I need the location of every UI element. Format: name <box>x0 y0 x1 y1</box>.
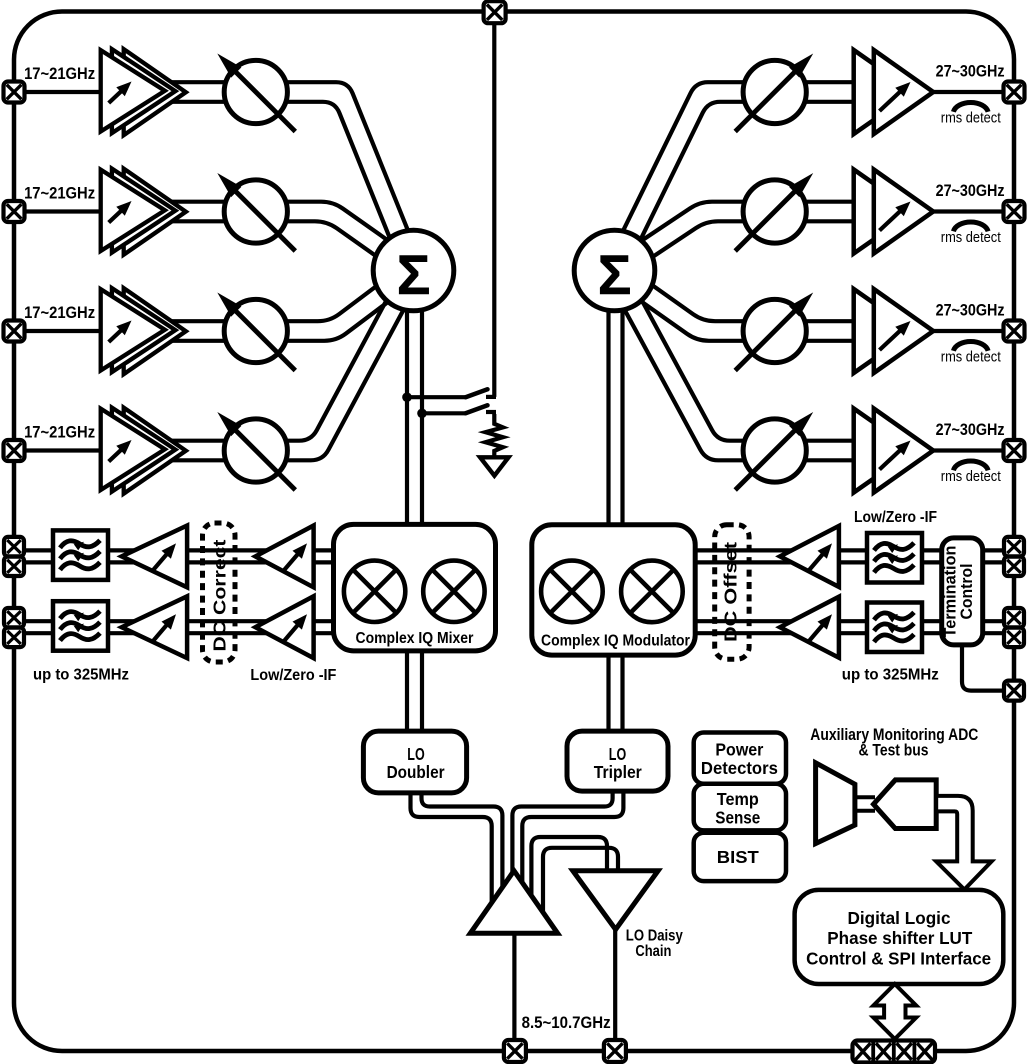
wire TX3 output <box>930 329 1004 333</box>
port LO in bottom <box>504 1040 526 1062</box>
svg-text:DC Correct: DC Correct <box>209 539 229 651</box>
amplifier VGA RX1 <box>124 49 186 135</box>
phase shifter RX3 <box>224 299 287 362</box>
switch S2 <box>422 411 466 415</box>
wire horn to ADC <box>855 795 875 799</box>
wire IF left pair <box>23 548 336 552</box>
wire IF right pair <box>693 619 1006 623</box>
svg-text:17~21GHz: 17~21GHz <box>24 64 95 83</box>
wire LO daisy to bottom port <box>613 926 617 1046</box>
wire modulator to LO tripler pair <box>606 650 610 736</box>
ADC symbol <box>874 780 937 829</box>
svg-text:BIST: BIST <box>717 847 759 867</box>
switch S1 <box>407 395 466 399</box>
port LO daisy bottom <box>604 1040 626 1062</box>
ground arrow <box>480 457 508 475</box>
amplifier PA TX3 <box>854 289 914 373</box>
BIST block <box>694 833 786 881</box>
port termination right <box>1004 681 1024 701</box>
node junction 1 <box>402 392 412 402</box>
port RX1 <box>4 82 25 103</box>
wire RX4 input <box>24 448 104 452</box>
rms detect arc TX1 <box>953 102 988 111</box>
port RX4 <box>4 440 25 461</box>
port IF left pair 1 <box>4 537 24 556</box>
svg-text:8.5~10.7GHz: 8.5~10.7GHz <box>522 1014 611 1032</box>
amplifier IF right <box>780 526 839 587</box>
amplifier VGA RX4 <box>124 408 186 494</box>
svg-text:Detectors: Detectors <box>701 758 778 778</box>
svg-text:Low/Zero -IF: Low/Zero -IF <box>250 667 336 684</box>
wire IF left pair <box>23 619 336 623</box>
amplifier PA TX1 <box>854 50 914 134</box>
svg-text:Complex IQ Mixer: Complex IQ Mixer <box>356 630 474 647</box>
amplifier IF left A <box>122 596 187 658</box>
port RX3 <box>4 321 25 342</box>
Digital Logic block <box>795 890 1004 984</box>
svg-text:Low/Zero -IF: Low/Zero -IF <box>854 509 937 526</box>
svg-text:Doubler: Doubler <box>387 762 445 782</box>
LO Tripler block <box>567 731 668 791</box>
bus arrow ADC to digital <box>936 796 991 890</box>
wire IF right pair <box>693 548 1006 552</box>
svg-text:Σ: Σ <box>598 243 632 306</box>
wire TX2 phase pair <box>620 221 862 278</box>
Power Detectors block <box>694 733 786 784</box>
filter IF right <box>867 603 922 653</box>
port TX1 <box>1004 82 1025 103</box>
svg-text:Temp: Temp <box>717 789 759 809</box>
port IF right pair 2 <box>1004 608 1024 627</box>
rms detect arc TX3 <box>953 341 988 350</box>
svg-text:Σ: Σ <box>397 243 431 306</box>
wire mixer to LO doubler pair <box>405 645 409 736</box>
ports SPI cluster <box>853 1041 936 1063</box>
amplifier PA TX4 <box>854 409 914 493</box>
svg-text:Phase shifter LUT: Phase shifter LUT <box>827 928 972 948</box>
filter IF right <box>867 533 922 583</box>
bidirectional SPI arrow <box>873 984 916 1039</box>
termination control block <box>942 538 983 645</box>
svg-text:rms detect: rms detect <box>941 469 1001 485</box>
svg-text:rms detect: rms detect <box>941 230 1001 246</box>
port TX4 <box>1004 440 1025 461</box>
wire RX3 input <box>24 329 104 333</box>
wire TX4 output <box>930 448 1004 452</box>
wire TX2 output <box>930 209 1004 213</box>
svg-text:17~21GHz: 17~21GHz <box>24 422 95 441</box>
rms detect arc TX2 <box>953 222 988 231</box>
wire top port down <box>492 20 496 397</box>
LO Doubler block <box>363 731 466 793</box>
amplifier IF right <box>780 597 839 658</box>
wire sigma-L to mixer pair <box>405 275 409 530</box>
DC Offset block <box>715 525 749 660</box>
amplifier VGA RX3 <box>124 288 186 374</box>
svg-text:Power: Power <box>715 739 763 759</box>
svg-text:Control: Control <box>957 563 976 619</box>
svg-text:rms detect: rms detect <box>941 350 1001 366</box>
phase shifter TX3 <box>743 299 806 362</box>
modulator cell Q <box>621 561 683 623</box>
svg-text:LO: LO <box>407 744 424 764</box>
svg-text:Complex IQ Modulator: Complex IQ Modulator <box>541 633 690 650</box>
svg-text:rms detect: rms detect <box>941 111 1001 127</box>
wire TX4 phase pair <box>606 275 862 460</box>
mixer cell Q <box>423 561 484 622</box>
svg-text:27~30GHz: 27~30GHz <box>936 62 1005 81</box>
port IF right pair 1 <box>1004 537 1024 556</box>
wire sigma-R to modulator pair <box>606 275 610 530</box>
node junction 2 <box>417 409 427 419</box>
LO amplifier <box>470 871 557 934</box>
svg-text:17~21GHz: 17~21GHz <box>24 183 95 202</box>
svg-text:LO Daisy: LO Daisy <box>626 928 683 945</box>
port TX3 <box>1004 321 1025 342</box>
svg-text:17~21GHz: 17~21GHz <box>24 303 95 322</box>
svg-text:Control & SPI Interface: Control & SPI Interface <box>806 949 991 969</box>
phase shifter RX2 <box>224 180 287 243</box>
wire LO doubler to amp pair <box>411 790 492 906</box>
Temp Sense block <box>694 784 786 831</box>
phase shifter TX4 <box>743 419 806 482</box>
port IF left pair 2 <box>4 608 24 627</box>
modulator block U2 Complex IQ Modulator <box>532 525 695 655</box>
mixer block U1 Complex IQ Mixer <box>334 524 496 651</box>
DC Correct block <box>203 523 236 662</box>
mixer cell I <box>344 561 405 622</box>
wire RX3 amp-to-phase pair <box>172 278 419 341</box>
phase shifter TX1 <box>743 60 806 123</box>
svg-text:27~30GHz: 27~30GHz <box>936 301 1005 320</box>
amplifier VGA RX2 <box>124 169 186 255</box>
svg-text:Tripler: Tripler <box>594 762 642 782</box>
summer sigma left <box>373 230 454 311</box>
filter IF left <box>53 530 108 580</box>
svg-text:& Test bus: & Test bus <box>859 742 929 760</box>
svg-text:up to 325MHz: up to 325MHz <box>842 667 939 684</box>
phase shifter RX1 <box>224 60 287 123</box>
wire RX1 amp-to-phase pair <box>172 102 404 274</box>
svg-text:Sense: Sense <box>715 807 760 827</box>
wire TX3 phase pair <box>609 279 862 341</box>
amplifier PA TX2 <box>854 170 914 254</box>
port TX2 <box>1004 201 1025 222</box>
svg-text:27~30GHz: 27~30GHz <box>936 181 1005 200</box>
wire termination control to port <box>962 643 1004 691</box>
svg-text:up to 325MHz: up to 325MHz <box>33 667 129 684</box>
svg-text:Chain: Chain <box>635 943 671 960</box>
phase shifter RX4 <box>224 419 287 482</box>
filter IF left <box>53 601 108 651</box>
port RX2 <box>4 201 25 222</box>
wire LO amp to bottom port <box>512 930 516 1046</box>
amplifier IF left A <box>122 526 187 588</box>
wire RX2 input <box>24 209 104 213</box>
wire RX4 amp-to-phase pair <box>172 275 422 460</box>
svg-text:27~30GHz: 27~30GHz <box>936 420 1005 439</box>
svg-text:DC Offset: DC Offset <box>721 542 741 642</box>
wire RX1 input <box>24 90 104 94</box>
port top LO out <box>484 1 506 23</box>
resistor termination <box>486 414 504 457</box>
modulator cell I <box>541 561 603 623</box>
svg-text:LO: LO <box>609 744 626 764</box>
wire LO daisy chain pair <box>531 837 607 897</box>
test mux horn <box>816 763 855 844</box>
wire TX1 output <box>930 90 1004 94</box>
amplifier IF left B <box>255 526 313 588</box>
wire TX1 phase pair <box>623 102 862 275</box>
splitter sigma right <box>574 230 655 311</box>
wire LO tripler to amp pair <box>522 790 623 886</box>
wire RX2 amp-to-phase pair <box>172 221 408 278</box>
rms detect arc TX4 <box>953 461 988 470</box>
amplifier IF left B <box>255 596 313 658</box>
svg-text:Digital Logic: Digital Logic <box>848 908 951 928</box>
LO daisy chain buffer <box>573 871 658 930</box>
phase shifter TX2 <box>743 180 806 243</box>
